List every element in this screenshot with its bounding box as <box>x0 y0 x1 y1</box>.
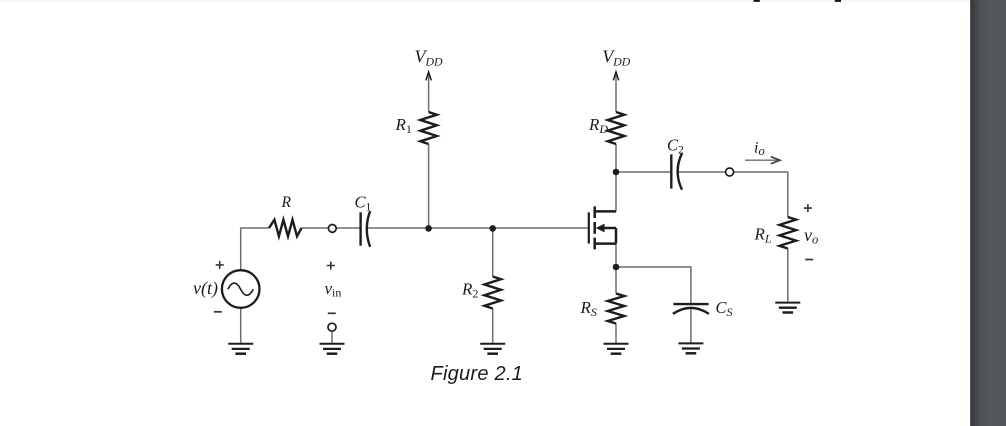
svg-text:R: R <box>281 194 292 211</box>
current arrow io <box>745 157 780 164</box>
wire RD to drain <box>615 144 617 211</box>
transistor M1 drain lead <box>595 210 616 213</box>
ground under RS <box>604 344 629 354</box>
sidebar dark panel <box>970 0 1006 426</box>
capacitor C1 <box>361 211 371 247</box>
wire C1 to gate <box>367 227 587 229</box>
wire R1 to gate line <box>428 144 430 228</box>
resistor RD <box>608 112 625 144</box>
resistor R <box>269 220 302 237</box>
minus of vin <box>328 312 336 314</box>
ground under RL <box>775 303 800 313</box>
minus of v(t) <box>214 311 222 313</box>
wire R2 to ground <box>492 309 494 343</box>
capacitor C2 <box>671 153 682 189</box>
arrowhead VDD right <box>613 72 618 80</box>
top text fragment 2 <box>835 0 841 2</box>
wire vin terminal to ground <box>331 331 333 343</box>
resistor RL <box>780 217 797 249</box>
plus of vin <box>327 262 335 270</box>
wire source top <box>241 228 269 270</box>
ground under R2 <box>480 344 505 354</box>
ground under vin <box>320 344 345 354</box>
node gate-R2 <box>489 225 496 232</box>
transistor M1 channel segments <box>593 206 596 249</box>
wire R1 arrow stem <box>428 73 430 112</box>
plus of v(t) <box>216 261 224 269</box>
wire drain to C2 <box>616 171 670 173</box>
capacitor CS <box>673 304 709 314</box>
minus of vo <box>805 259 813 261</box>
svg-text:v(t): v(t) <box>193 278 218 299</box>
wire terminal to C1 <box>336 227 359 229</box>
ground under v(t) <box>228 344 253 354</box>
plus of vo <box>804 204 812 212</box>
wire source bottom <box>240 308 242 343</box>
node gate-R1 <box>425 225 432 232</box>
wire RS to ground <box>615 324 617 343</box>
transistor M1 body-source tie <box>615 228 618 244</box>
vin terminal <box>328 323 336 331</box>
resistor R2 <box>484 277 501 309</box>
wire R2 top <box>492 229 494 277</box>
top text fragment 1 <box>754 0 760 2</box>
transistor M1 source lead <box>595 242 616 245</box>
wire RL to ground <box>787 249 789 302</box>
node drain <box>613 169 620 176</box>
ground under CS <box>678 343 703 353</box>
wire CS to ground <box>690 308 692 343</box>
wire source node to CS <box>616 267 691 304</box>
output terminal <box>726 168 734 176</box>
wire source lead to RS <box>615 244 617 294</box>
wire output terminal to RL <box>734 172 788 217</box>
terminal node after R <box>328 225 336 233</box>
wire C2 to output terminal <box>678 171 726 173</box>
transistor M1 body arrow <box>596 224 616 233</box>
resistor R1 <box>420 112 437 144</box>
arrowhead VDD left <box>426 72 431 80</box>
resistor RS <box>608 294 625 324</box>
wire R to terminal <box>302 227 329 229</box>
svg-text:Figure 2.1: Figure 2.1 <box>431 363 524 385</box>
transistor M1 gate bar <box>588 212 590 243</box>
source v(t) <box>222 270 260 308</box>
node source <box>613 264 620 271</box>
wire RD arrow stem <box>615 73 617 112</box>
